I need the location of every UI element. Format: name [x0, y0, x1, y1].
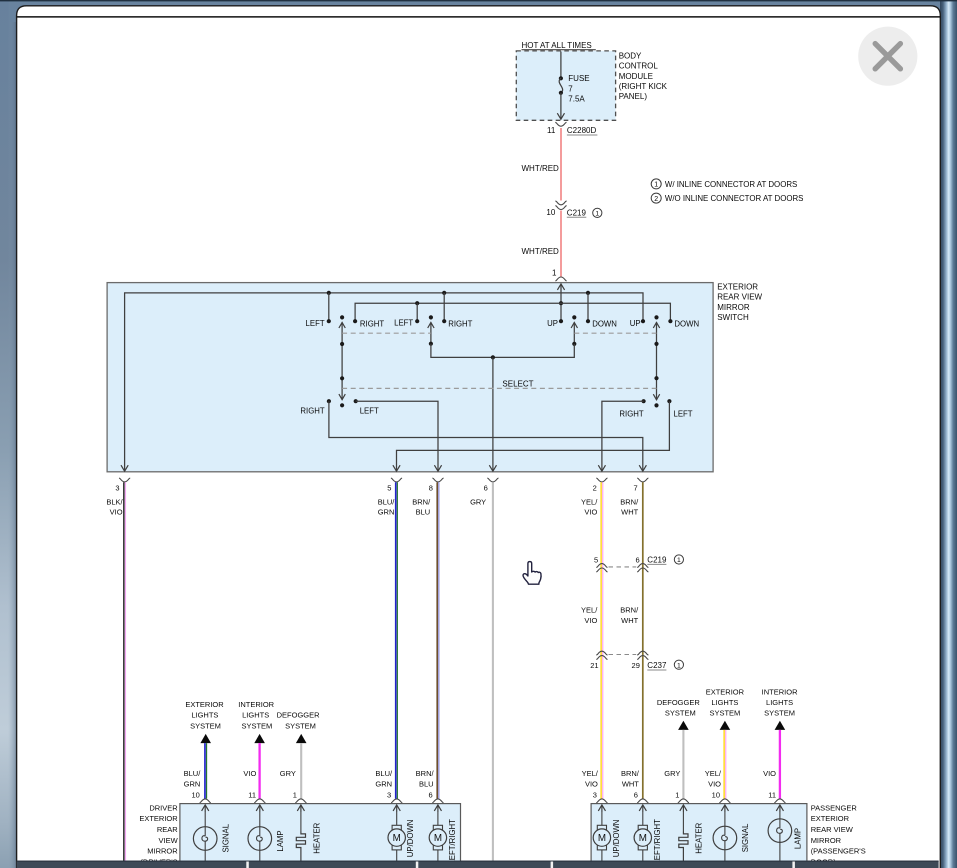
- svg-text:29: 29: [632, 661, 640, 670]
- switch pin 7 exit: [634, 478, 649, 493]
- svg-text:10: 10: [712, 790, 720, 799]
- arrow to defogger (driver): [296, 734, 307, 743]
- svg-text:YEL/: YEL/: [581, 605, 598, 614]
- switch pin 3 exit: [115, 478, 130, 493]
- wire right3 contact to pin 7: [329, 401, 647, 471]
- svg-text:SIGNAL: SIGNAL: [221, 823, 230, 852]
- label BRN/WHT mid: [620, 605, 639, 625]
- svg-text:11: 11: [248, 790, 256, 799]
- svg-text:BRN/: BRN/: [412, 497, 431, 506]
- wire BRN/BLU pin8 to driver mirror: [437, 482, 439, 798]
- svg-text:6: 6: [429, 790, 433, 799]
- svg-text:WHT: WHT: [622, 780, 639, 789]
- driver mirror pin 1 entry: [295, 799, 306, 812]
- label BLU/GRN: [378, 497, 396, 516]
- switch pin 5 exit: [387, 478, 402, 493]
- bottom scroll bar: [17, 861, 939, 868]
- svg-text:REAR: REAR: [157, 825, 178, 834]
- wire WHT/RED (C2280D to C219): [560, 128, 562, 201]
- svg-text:11: 11: [547, 126, 556, 135]
- wire VIO passenger pin11: [779, 730, 781, 799]
- passenger mirror pin 3 entry: [596, 799, 607, 812]
- panel header divider: [17, 16, 941, 18]
- label LEFT/RIGHT (passenger): [653, 819, 662, 865]
- svg-text:W/O INLINE CONNECTOR AT DOORS: W/O INLINE CONNECTOR AT DOORS: [665, 194, 804, 203]
- wire GRY pin6 down: [492, 482, 494, 861]
- lamp LAMP (driver): [248, 812, 272, 861]
- label HEATER (passenger): [695, 822, 704, 853]
- svg-text:REAR VIEW: REAR VIEW: [717, 293, 762, 302]
- svg-text:DEFOGGER: DEFOGGER: [277, 711, 321, 720]
- label SIGNAL (passenger): [741, 823, 750, 852]
- svg-text:VIO: VIO: [243, 769, 256, 778]
- fuse F7 7.5A: [557, 52, 589, 120]
- label BLK/VIO: [106, 497, 123, 516]
- svg-text:HEATER: HEATER: [695, 822, 704, 853]
- pin 1 wire inside switch: [557, 284, 564, 323]
- label exterior lights system (passenger): [706, 687, 745, 717]
- svg-text:11: 11: [768, 790, 776, 799]
- body control module label: [619, 51, 668, 101]
- svg-text:W/ INLINE CONNECTOR AT DOORS: W/ INLINE CONNECTOR AT DOORS: [665, 180, 797, 189]
- bottom contacts select row: [300, 399, 692, 419]
- svg-text:RIGHT: RIGHT: [300, 407, 324, 416]
- switch pin 8 exit: [429, 478, 444, 493]
- svg-text:LEFT: LEFT: [306, 319, 325, 328]
- switch pin 6 exit: [484, 478, 499, 493]
- contact labels top row: [306, 319, 700, 329]
- wire GRY driver pin1: [300, 743, 302, 799]
- svg-text:BRN/: BRN/: [416, 769, 435, 778]
- svg-text:BRN/: BRN/: [620, 605, 639, 614]
- svg-text:UP: UP: [630, 319, 641, 328]
- passenger mirror pin 1 entry: [678, 799, 689, 812]
- svg-text:EXTERIOR: EXTERIOR: [139, 814, 178, 823]
- connector C2280D pin 11: [547, 122, 597, 135]
- svg-text:GRY: GRY: [280, 769, 296, 778]
- svg-text:SELECT: SELECT: [502, 379, 533, 388]
- svg-text:C237: C237: [647, 661, 667, 670]
- svg-text:GRY: GRY: [470, 497, 486, 506]
- svg-text:REAR VIEW: REAR VIEW: [811, 825, 854, 834]
- wire BLK/VIO pin3 down: [124, 482, 126, 861]
- ground bus (pin 3 net): [121, 291, 645, 471]
- label YEL/VIO: [581, 497, 598, 516]
- svg-text:LEFT/RIGHT: LEFT/RIGHT: [653, 819, 662, 865]
- svg-text:DOWN: DOWN: [674, 319, 699, 328]
- wire right4 contact to pin 2: [598, 401, 643, 471]
- heater element (driver): [296, 812, 305, 861]
- note 1: W/ INLINE CONNECTOR AT DOORS: [651, 179, 797, 189]
- svg-text:RIGHT: RIGHT: [360, 319, 384, 328]
- svg-text:PASSENGER: PASSENGER: [811, 803, 858, 812]
- svg-text:VIO: VIO: [584, 616, 597, 625]
- switch arm D/F (up-down + select): [653, 315, 659, 407]
- svg-text:M: M: [393, 833, 401, 844]
- label UP/DOWN (driver): [406, 820, 415, 858]
- svg-text:2: 2: [654, 196, 658, 203]
- svg-text:SWITCH: SWITCH: [717, 313, 749, 322]
- wire GRY passenger pin1: [682, 730, 684, 799]
- svg-text:LEFT: LEFT: [360, 407, 379, 416]
- svg-text:M: M: [598, 833, 606, 844]
- svg-text:6: 6: [484, 484, 488, 493]
- inline connector C237 pins 21/29: [590, 651, 683, 670]
- svg-text:DEFOGGER: DEFOGGER: [657, 698, 701, 707]
- wire YEL/VIO pin2 to passenger mirror: [601, 482, 603, 798]
- svg-text:C219: C219: [647, 556, 667, 565]
- svg-text:MODULE: MODULE: [619, 72, 653, 81]
- label defogger system (passenger): [657, 698, 701, 718]
- svg-text:3: 3: [387, 790, 391, 799]
- svg-text:5: 5: [594, 555, 598, 564]
- svg-text:SYSTEM: SYSTEM: [241, 721, 272, 730]
- svg-text:EXTERIOR: EXTERIOR: [811, 814, 850, 823]
- svg-text:(PASSENGER'S: (PASSENGER'S: [811, 847, 866, 856]
- svg-text:C219: C219: [567, 208, 587, 217]
- feed bus (pin 1 net): [353, 301, 673, 323]
- svg-text:C2280D: C2280D: [567, 126, 597, 135]
- svg-text:6: 6: [636, 555, 640, 564]
- passenger exterior rear view mirror box: [591, 804, 807, 868]
- svg-text:INTERIOR: INTERIOR: [238, 700, 274, 709]
- driver mirror pin 3 entry: [391, 799, 402, 812]
- svg-text:UP: UP: [547, 319, 558, 328]
- passenger mirror pin 10 entry: [719, 799, 730, 812]
- label YEL/VIO mid: [581, 605, 598, 625]
- label HEATER (driver): [312, 822, 321, 853]
- svg-text:M: M: [639, 833, 647, 844]
- driver exterior rear view mirror box: [180, 804, 461, 868]
- svg-text:YEL/: YEL/: [705, 769, 722, 778]
- exterior rear view mirror switch box: [107, 283, 713, 472]
- driver mirror pin 10 entry: [200, 799, 211, 812]
- passenger mirror pin 6 entry: [637, 799, 648, 812]
- label interior lights system (passenger): [762, 687, 798, 717]
- heater element (passenger): [679, 812, 688, 861]
- svg-text:PANEL): PANEL): [619, 92, 648, 101]
- svg-text:WHT: WHT: [621, 508, 638, 517]
- svg-text:LIGHTS: LIGHTS: [242, 711, 269, 720]
- select link dash: [342, 379, 656, 388]
- arrow to defogger (passenger): [678, 721, 689, 730]
- svg-text:M: M: [434, 833, 442, 844]
- mechanical link dashes: [342, 332, 656, 334]
- svg-text:1: 1: [552, 269, 557, 278]
- wire VIO driver pin11: [258, 743, 260, 799]
- svg-text:1: 1: [293, 790, 297, 799]
- svg-text:MIRROR: MIRROR: [717, 303, 750, 312]
- svg-text:GRY: GRY: [664, 769, 680, 778]
- svg-text:HEATER: HEATER: [312, 822, 321, 853]
- svg-text:1: 1: [677, 662, 681, 669]
- svg-text:BODY: BODY: [619, 51, 642, 60]
- lamp SIGNAL (driver): [193, 812, 217, 861]
- label LAMP (passenger): [793, 828, 802, 849]
- svg-text:VIO: VIO: [763, 769, 776, 778]
- svg-text:EXTERIOR: EXTERIOR: [717, 282, 758, 291]
- wire arm B/C common to pin 6: [431, 344, 574, 472]
- svg-text:VIO: VIO: [708, 780, 721, 789]
- label passenger exterior rear view mirror: [811, 803, 866, 866]
- motor UP/DOWN (passenger): [593, 812, 610, 861]
- svg-text:FUSE: FUSE: [568, 74, 589, 83]
- svg-text:10: 10: [191, 790, 199, 799]
- svg-text:6: 6: [634, 790, 638, 799]
- svg-text:YEL/: YEL/: [581, 497, 598, 506]
- wire BRN/WHT pin7 to passenger mirror: [642, 482, 644, 798]
- svg-text:LEFT: LEFT: [394, 319, 413, 328]
- svg-text:VIO: VIO: [584, 508, 597, 517]
- svg-text:7.5A: 7.5A: [568, 95, 585, 104]
- node HOT AT ALL TIMES: [522, 41, 596, 50]
- svg-text:HOT AT ALL TIMES: HOT AT ALL TIMES: [522, 41, 592, 50]
- svg-text:BLU/: BLU/: [378, 497, 396, 506]
- svg-text:1: 1: [595, 211, 599, 218]
- switch arm B (left-right passenger pole): [428, 315, 434, 346]
- passenger mirror pin 11 entry: [774, 799, 785, 812]
- svg-text:SYSTEM: SYSTEM: [190, 721, 221, 730]
- wire YEL/VIO passenger pin10: [724, 730, 726, 799]
- svg-text:MIRROR: MIRROR: [147, 847, 178, 856]
- svg-text:VIO: VIO: [585, 780, 598, 789]
- svg-text:21: 21: [590, 661, 598, 670]
- label WHT/RED: [522, 164, 560, 173]
- passenger pin labels: [582, 769, 599, 799]
- svg-text:LIGHTS: LIGHTS: [191, 711, 218, 720]
- svg-text:7: 7: [568, 84, 573, 93]
- label driver exterior rear view mirror: [139, 803, 178, 866]
- motor LEFT/RIGHT (passenger): [634, 812, 651, 861]
- svg-text:BRN/: BRN/: [620, 497, 639, 506]
- svg-text:1: 1: [675, 790, 679, 799]
- svg-text:LIGHTS: LIGHTS: [711, 698, 738, 707]
- svg-text:3: 3: [593, 790, 597, 799]
- svg-text:GRN: GRN: [184, 780, 201, 789]
- switch arm C (up-down pole): [571, 315, 577, 346]
- wire left3 contact to pin 8: [356, 401, 442, 471]
- label exterior lights system (driver): [185, 700, 224, 730]
- lamp LAMP (passenger): [768, 812, 792, 861]
- note 2: W/O INLINE CONNECTOR AT DOORS: [651, 193, 803, 203]
- driver mirror pin 6 entry: [432, 799, 443, 812]
- svg-text:VIEW: VIEW: [159, 836, 179, 845]
- svg-text:EXTERIOR: EXTERIOR: [185, 700, 224, 709]
- svg-text:BLU: BLU: [419, 780, 434, 789]
- svg-text:DOWN: DOWN: [592, 319, 617, 328]
- switch arm A/E (left-right + select, driver side): [339, 315, 345, 407]
- wire WHT/RED (C219 to switch pin 1): [560, 211, 562, 277]
- label SIGNAL (driver): [221, 823, 230, 852]
- inline connector C219 pins 5/6: [594, 555, 683, 572]
- lamp SIGNAL (passenger): [713, 812, 737, 861]
- svg-text:(RIGHT KICK: (RIGHT KICK: [619, 82, 668, 91]
- arrow to exterior lights (passenger): [720, 721, 731, 730]
- svg-text:RIGHT: RIGHT: [448, 319, 472, 328]
- switch pin 2 exit: [593, 478, 608, 493]
- label interior lights system (driver): [238, 700, 274, 730]
- svg-text:SYSTEM: SYSTEM: [285, 721, 316, 730]
- label BRN/BLU: [412, 497, 431, 516]
- svg-text:EXTERIOR: EXTERIOR: [706, 687, 745, 696]
- svg-text:8: 8: [429, 484, 433, 493]
- wire left4 contact to pin 5: [393, 401, 670, 471]
- svg-text:LEFT: LEFT: [674, 410, 693, 419]
- label defogger system (driver): [277, 711, 321, 731]
- svg-text:WHT: WHT: [621, 616, 638, 625]
- svg-text:RIGHT: RIGHT: [619, 410, 643, 419]
- svg-text:SYSTEM: SYSTEM: [709, 708, 740, 717]
- svg-text:GRN: GRN: [375, 780, 392, 789]
- svg-text:DRIVER: DRIVER: [149, 803, 178, 812]
- svg-text:BLU/: BLU/: [184, 769, 202, 778]
- driver mirror pin 11 entry: [254, 799, 265, 812]
- svg-text:WHT/RED: WHT/RED: [522, 164, 560, 173]
- svg-text:7: 7: [634, 484, 638, 493]
- svg-text:5: 5: [387, 484, 391, 493]
- svg-text:BRN/: BRN/: [621, 769, 640, 778]
- label exterior rear view mirror switch: [717, 282, 762, 322]
- svg-text:GRN: GRN: [378, 508, 395, 517]
- svg-text:SYSTEM: SYSTEM: [665, 708, 696, 717]
- svg-text:YEL/: YEL/: [582, 769, 599, 778]
- arrow to exterior lights (driver): [200, 734, 211, 743]
- svg-text:1: 1: [677, 557, 681, 564]
- body control module box (dashed): [516, 51, 615, 120]
- label LEFT/RIGHT (driver): [448, 819, 457, 865]
- close button: [858, 27, 917, 86]
- switch pin 1 entry: [552, 269, 567, 281]
- svg-text:WHT/RED: WHT/RED: [522, 247, 560, 256]
- connector C219 pin 10 (inline): [546, 201, 602, 218]
- label BRN/WHT: [620, 497, 639, 516]
- svg-text:LEFT/RIGHT: LEFT/RIGHT: [448, 819, 457, 865]
- svg-text:INTERIOR: INTERIOR: [762, 687, 798, 696]
- svg-text:LAMP: LAMP: [276, 830, 285, 851]
- svg-text:10: 10: [546, 208, 555, 217]
- svg-text:SYSTEM: SYSTEM: [764, 708, 795, 717]
- svg-text:VIO: VIO: [110, 508, 123, 517]
- svg-text:BLU: BLU: [416, 508, 431, 517]
- svg-text:LAMP: LAMP: [793, 828, 802, 849]
- label UP/DOWN (passenger): [612, 820, 621, 858]
- wire BLU/GRN pin5 to driver mirror: [396, 482, 398, 798]
- svg-text:SIGNAL: SIGNAL: [741, 823, 750, 852]
- driver pin labels: [184, 769, 202, 799]
- motor UP/DOWN (driver): [388, 812, 405, 861]
- svg-text:CONTROL: CONTROL: [619, 62, 659, 71]
- svg-text:UP/DOWN: UP/DOWN: [406, 820, 415, 858]
- mouse hand cursor: [523, 562, 541, 585]
- svg-text:LIGHTS: LIGHTS: [766, 698, 793, 707]
- svg-text:BLU/: BLU/: [375, 769, 393, 778]
- arrow to interior lights (passenger): [775, 721, 786, 730]
- svg-text:MIRROR: MIRROR: [811, 836, 842, 845]
- motor LEFT/RIGHT (driver): [429, 812, 446, 861]
- wire BLU/GRN driver pin10: [205, 743, 207, 799]
- svg-text:3: 3: [115, 484, 119, 493]
- label WHT/RED 2: [522, 247, 560, 256]
- svg-text:UP/DOWN: UP/DOWN: [612, 820, 621, 858]
- svg-text:2: 2: [593, 484, 597, 493]
- label LAMP (driver): [276, 830, 285, 851]
- svg-text:1: 1: [654, 182, 658, 189]
- svg-text:BLK/: BLK/: [106, 497, 123, 506]
- label GRY: [470, 497, 486, 506]
- arrow to interior lights (driver): [254, 734, 265, 743]
